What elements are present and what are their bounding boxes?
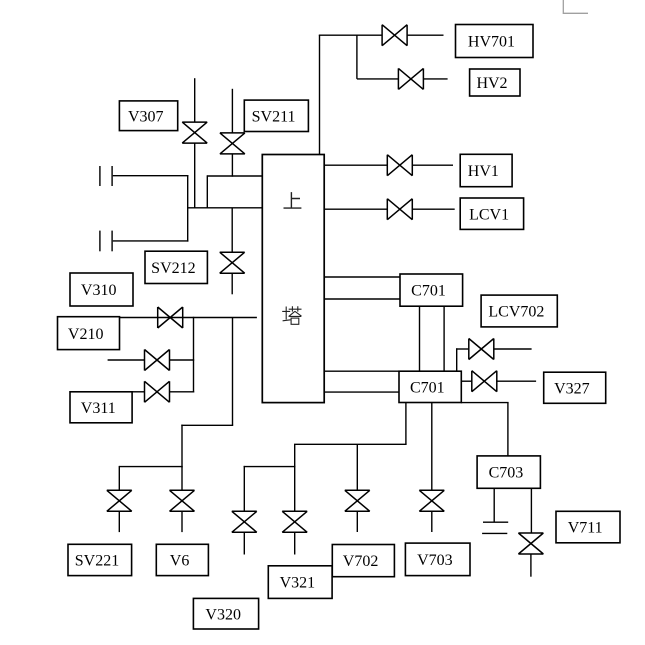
wire V311 line left (132, 391, 145, 393)
svg-text:V307: V307 (128, 108, 164, 125)
wire V702 stem below (356, 511, 358, 532)
tower text 塔 (282, 306, 301, 324)
svg-text:C703: C703 (489, 465, 524, 482)
label box V310 (70, 273, 133, 306)
svg-text:SV211: SV211 (252, 108, 296, 125)
label box V6 (156, 544, 208, 575)
svg-text:SV212: SV212 (151, 260, 195, 277)
wire V703 stem below (431, 511, 433, 532)
valve (pair right, above V321) (282, 511, 307, 532)
label box C703 (477, 456, 540, 488)
wire LCV702 line right (494, 348, 532, 350)
wire valves connector vertical (193, 317, 195, 393)
svg-text:V6: V6 (170, 553, 190, 570)
capacitor bars under C703 (483, 521, 508, 523)
label box SV211 (244, 100, 308, 131)
wire C703 left drop (493, 488, 495, 522)
tower vessel 上塔 (262, 155, 324, 403)
wire V307 stem above (194, 78, 196, 122)
svg-text:V311: V311 (81, 400, 116, 417)
wire C701b feed upper (324, 370, 400, 372)
valve HV701 (382, 25, 407, 46)
wire pair right stem below (294, 532, 296, 555)
svg-text:HV2: HV2 (476, 75, 507, 92)
wire C701 feed upper (324, 276, 401, 278)
valve V711 (518, 533, 543, 554)
label box V711 (556, 511, 620, 543)
wire upper capacitor line (113, 175, 189, 177)
wire C701 feed lower (324, 298, 401, 300)
valve V307 (182, 122, 207, 143)
wire SV212 stem above (231, 208, 233, 253)
wire mid valve line left (108, 359, 145, 361)
wire HV701 line right (407, 34, 443, 36)
wire mid valve line right (169, 359, 194, 361)
wire pair left stem below (243, 532, 245, 555)
wire HV2 branch vertical (356, 35, 358, 79)
wire drop from C701b left (405, 403, 407, 445)
label box V320 (193, 598, 258, 629)
valve V6 (170, 490, 195, 511)
wire capacitor connector vertical (187, 175, 189, 242)
wire SV221 feed (118, 466, 120, 491)
svg-text:V711: V711 (568, 520, 603, 537)
wire SV212 stem below (231, 273, 233, 295)
valve HV2 (398, 68, 423, 89)
wire V327 line left (461, 380, 472, 382)
wire riser from tower top to HV701 line (319, 35, 321, 155)
svg-text:V703: V703 (417, 552, 453, 569)
wire branch horizontal to SV221 (119, 466, 182, 468)
wire C703 right drop (530, 488, 532, 533)
svg-text:V320: V320 (205, 606, 241, 623)
wire C703 feed horizontal (461, 402, 509, 404)
wire LCV1 line right (412, 208, 455, 210)
label box V703 (405, 543, 470, 576)
partial frame corner (gray) (563, 0, 588, 13)
svg-text:LCV1: LCV1 (469, 206, 509, 223)
wire V311 line right (169, 391, 194, 393)
wire HV701 line left (319, 34, 382, 36)
label box V311 (70, 392, 132, 423)
label box HV1 (460, 154, 512, 186)
label box V321 (268, 566, 332, 599)
valve V703 (419, 490, 444, 511)
svg-text:V210: V210 (68, 326, 104, 343)
label box V307 (119, 101, 177, 131)
svg-text:C701: C701 (411, 283, 446, 300)
wire C703 feed vertical (507, 403, 509, 457)
valve SV211 (220, 133, 245, 154)
wire C701 downcomer left (419, 306, 421, 372)
svg-text:SV221: SV221 (75, 553, 119, 570)
wire upper pipe to tower (207, 175, 263, 177)
label box V702 (332, 545, 394, 577)
label box HV2 (470, 69, 520, 96)
label box LCV702 (481, 295, 557, 327)
svg-text:V702: V702 (343, 553, 379, 570)
label box C701 (upper) (400, 274, 463, 306)
wire SV221 stem below (118, 511, 120, 532)
valve SV221 (107, 490, 132, 511)
valve LCV1 (387, 199, 412, 220)
valve V702 (345, 490, 370, 511)
label box SV212 (145, 251, 207, 283)
wire V6 feed (181, 467, 183, 491)
wire SV211 stem below (231, 154, 233, 177)
wire drop from main line (232, 318, 234, 426)
label box SV221 (68, 544, 132, 575)
valve SV212 (220, 252, 245, 273)
wire V6 stem below (181, 511, 183, 532)
wire jog horizontal (181, 424, 233, 426)
wire V307 stem below (194, 143, 196, 209)
tower text 上 (284, 192, 302, 208)
svg-text:HV1: HV1 (468, 163, 499, 180)
valve (unnamed, mid-left) (145, 350, 170, 371)
wire drop to pair right (294, 444, 296, 511)
wire HV2 line right (423, 78, 447, 80)
wire pair branch horizontal (244, 466, 296, 468)
valve V311 (145, 381, 170, 402)
capacitor plates lower (99, 231, 101, 252)
wire HV1 line left (324, 164, 388, 166)
svg-text:V327: V327 (554, 380, 590, 397)
wire bottom header (294, 443, 407, 445)
label box C701 (lower) (399, 371, 461, 402)
wire SV211 stem above (231, 89, 233, 133)
wire V711 stem below (530, 554, 532, 577)
svg-text:HV701: HV701 (468, 34, 515, 51)
wire V703 drop (431, 403, 433, 491)
wire LCV1 line left (324, 208, 388, 210)
valve V210 (158, 307, 183, 328)
wire lower capacitor line (113, 240, 189, 242)
label box V327 (544, 372, 606, 403)
svg-text:LCV702: LCV702 (488, 304, 544, 321)
svg-text:V321: V321 (280, 575, 316, 592)
label box HV701 (456, 25, 534, 58)
valve LCV702 (469, 339, 494, 360)
svg-text:C701: C701 (410, 379, 445, 396)
valve (pair left, above V321) (232, 511, 257, 532)
valve V327 (472, 371, 497, 392)
wire connector vertical (206, 175, 208, 208)
wire V327 line right (497, 380, 536, 382)
wire HV2 line left (357, 78, 399, 80)
wire C701 downcomer right (443, 306, 445, 372)
wire jog vertical (181, 425, 183, 468)
wire LCV702 stub (456, 348, 469, 350)
wire C701b feed lower (324, 391, 400, 393)
svg-text:V310: V310 (81, 282, 117, 299)
wire HV1 line right (412, 164, 453, 166)
capacitor plates upper (99, 166, 101, 186)
wire LCV702 riser (456, 348, 458, 371)
wire V702 drop (356, 444, 358, 490)
valve HV1 (387, 155, 412, 176)
wire lower pipe to tower (188, 207, 263, 209)
label box V210 (58, 317, 120, 350)
wire main line (58, 317, 257, 319)
label box LCV1 (460, 198, 523, 229)
wire drop to pair left (243, 466, 245, 512)
